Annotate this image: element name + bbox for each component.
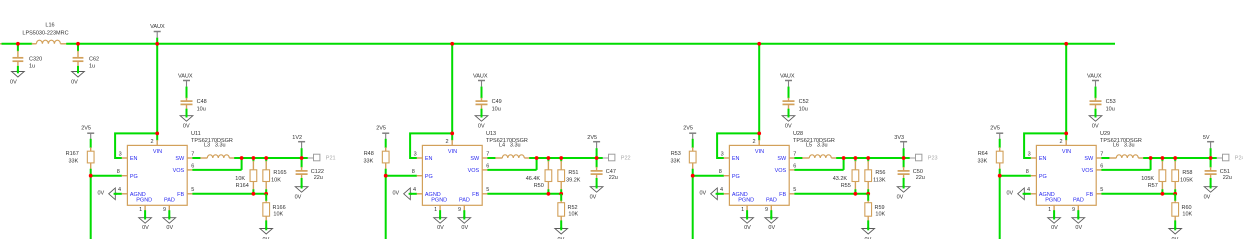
svg-text:VOS: VOS xyxy=(775,168,787,174)
pin names of U13 xyxy=(425,149,480,203)
wire: PG pin 8 of U28 xyxy=(693,175,724,177)
wire: C50 to ground xyxy=(903,178,905,187)
wire: EN pin 3 tie to VIN net (U11) xyxy=(115,133,157,158)
node: junction VOS / output rail xyxy=(535,156,539,160)
wire: FB pin 5 line of U29 xyxy=(1101,193,1175,195)
ground 0V at PGND pin 1 xyxy=(139,216,152,231)
node 2V5: net flag above R53 xyxy=(683,125,696,139)
ground 0V at AGND pin 4 of U28 xyxy=(699,188,718,200)
svg-text:3: 3 xyxy=(721,151,724,157)
pin names of U28 xyxy=(732,149,787,203)
resistor R166 10K xyxy=(263,194,286,229)
svg-text:R166: R166 xyxy=(273,205,286,211)
node: junction R165 top / output rail xyxy=(264,156,268,160)
pin numbers of U11 xyxy=(117,139,195,213)
svg-text:7: 7 xyxy=(1100,151,1103,157)
wire: AGND pin 4 stub of U29 xyxy=(1023,193,1031,195)
svg-text:33K: 33K xyxy=(671,158,681,164)
svg-text:10K: 10K xyxy=(875,211,885,217)
svg-text:5V: 5V xyxy=(1203,135,1210,141)
svg-text:0V: 0V xyxy=(699,191,706,197)
wire: rail down to VIN pin 2 of U28 xyxy=(758,44,760,141)
svg-text:R48: R48 xyxy=(364,151,374,157)
wire: C122 to ground xyxy=(301,178,303,187)
svg-text:C320: C320 xyxy=(29,56,42,62)
wire: FB pin 5 line of U11 xyxy=(192,193,266,195)
svg-text:10u: 10u xyxy=(799,106,808,112)
svg-text:33K: 33K xyxy=(978,158,988,164)
svg-text:0V: 0V xyxy=(590,195,597,201)
ground 0V under C48 xyxy=(180,114,193,129)
ground 0V under C47 xyxy=(590,185,603,200)
svg-text:TPS62170DSGR: TPS62170DSGR xyxy=(191,138,233,144)
wire: PG pin 8 of U29 xyxy=(1000,175,1031,177)
node: junction rail / C320 xyxy=(16,42,20,46)
svg-text:EN: EN xyxy=(1039,156,1047,162)
node: junction PG / pull-up xyxy=(691,174,695,178)
svg-text:6: 6 xyxy=(1100,163,1103,169)
svg-text:R52: R52 xyxy=(568,205,578,211)
svg-text:0V: 0V xyxy=(1172,237,1179,239)
svg-text:FB: FB xyxy=(1086,192,1093,198)
node 2V5: output net flag xyxy=(587,135,600,149)
svg-text:9: 9 xyxy=(458,207,461,213)
svg-text:L5: L5 xyxy=(806,143,812,149)
wire: 2V5 flag to output rail xyxy=(596,148,598,158)
svg-text:8: 8 xyxy=(412,169,415,175)
wire: output rail of U11 xyxy=(234,157,308,159)
ground 0V under C320 xyxy=(10,70,24,85)
svg-text:0V: 0V xyxy=(1006,191,1013,197)
node 3V3: output net flag xyxy=(894,135,907,149)
node VAUX: net flag above C49 xyxy=(473,73,488,87)
svg-text:0V: 0V xyxy=(263,237,270,239)
svg-text:PGND: PGND xyxy=(136,198,152,204)
svg-text:0V: 0V xyxy=(744,225,751,231)
svg-text:10u: 10u xyxy=(197,106,206,112)
svg-text:4: 4 xyxy=(1027,187,1030,193)
resistor R164 10K xyxy=(235,158,256,194)
svg-text:SW: SW xyxy=(175,156,185,162)
svg-text:2V5: 2V5 xyxy=(683,125,693,131)
svg-text:5: 5 xyxy=(191,187,194,193)
ground 0V under R59 xyxy=(862,227,875,240)
svg-text:6: 6 xyxy=(191,163,194,169)
svg-text:TPS62170DSGR: TPS62170DSGR xyxy=(793,138,835,144)
node: junction R57 bottom / FB line xyxy=(1161,192,1165,196)
ground 0V under C52 xyxy=(782,114,795,129)
capacitor C49 10u xyxy=(476,98,502,113)
svg-text:0V: 0V xyxy=(1075,225,1082,231)
svg-text:PGND: PGND xyxy=(1045,198,1061,204)
svg-text:R165: R165 xyxy=(273,170,286,176)
wire: output rail down to C47 xyxy=(596,158,598,167)
ground 0V under C51 xyxy=(1204,185,1217,200)
node 1V2: output net flag xyxy=(292,135,305,149)
svg-text:7: 7 xyxy=(486,151,489,157)
svg-text:5: 5 xyxy=(486,187,489,193)
wire: 3V3 flag to output rail xyxy=(903,148,905,158)
svg-text:FB: FB xyxy=(472,192,479,198)
wire: SW pin 7 stub of U13 xyxy=(487,157,495,159)
capacitor C47 22u xyxy=(591,167,618,181)
wire: C62 to rail xyxy=(77,44,79,51)
wire: VAUX flag to C52 xyxy=(788,87,790,99)
ground 0V under C122 xyxy=(295,185,308,200)
wire: VAUX top rail main segment xyxy=(66,43,1115,45)
wire: VAUX flag stub to rail xyxy=(156,38,158,45)
node 2V5: net flag above R167 xyxy=(81,125,94,139)
svg-text:33K: 33K xyxy=(69,158,79,164)
svg-text:TPS62170DSGR: TPS62170DSGR xyxy=(1100,138,1142,144)
svg-text:C48: C48 xyxy=(197,99,207,105)
ground 0V under R60 xyxy=(1169,227,1182,240)
ground 0V at PGND pin 1 xyxy=(741,216,754,231)
wire: output rail of U28 xyxy=(836,157,910,159)
svg-text:0V: 0V xyxy=(437,225,444,231)
svg-text:8: 8 xyxy=(719,169,722,175)
inductor L3 3.3u xyxy=(200,143,235,158)
svg-text:2: 2 xyxy=(150,139,153,145)
wire: SW pin 7 stub of U29 xyxy=(1101,157,1109,159)
wire: output rail of U13 xyxy=(529,157,603,159)
capacitor C62 1u xyxy=(73,51,99,70)
wire: output rail down to C51 xyxy=(1210,158,1212,167)
svg-text:C47: C47 xyxy=(606,169,616,175)
svg-text:0V: 0V xyxy=(897,195,904,201)
wire: rail down to VIN pin 2 of U11 xyxy=(156,44,158,141)
svg-text:10u: 10u xyxy=(1106,106,1115,112)
wire: VAUX flag to C53 xyxy=(1095,87,1097,99)
svg-text:P21: P21 xyxy=(326,156,336,162)
svg-text:SW: SW xyxy=(1084,156,1094,162)
node: junction PG / pull-up xyxy=(384,174,388,178)
svg-text:1: 1 xyxy=(1048,207,1051,213)
svg-text:3: 3 xyxy=(1028,151,1031,157)
node: junction R55 top / output rail xyxy=(854,156,858,160)
svg-text:C122: C122 xyxy=(311,169,324,175)
svg-text:10K: 10K xyxy=(568,211,578,217)
svg-text:2: 2 xyxy=(1059,139,1062,145)
svg-text:2: 2 xyxy=(445,139,448,145)
inductor L16 LPS5030-223MRC xyxy=(22,23,68,44)
node: junction EN tie / VIN wire xyxy=(757,132,761,136)
resistor R165 10K xyxy=(263,158,287,194)
node: junction rail / C62 xyxy=(76,42,80,46)
svg-text:L4: L4 xyxy=(499,143,505,149)
svg-text:LPS5030-223MRC: LPS5030-223MRC xyxy=(22,31,68,37)
wire: AGND pin 4 stub of U11 xyxy=(114,193,122,195)
svg-text:VIN: VIN xyxy=(448,149,457,155)
resistor R64 33K xyxy=(978,147,1004,169)
wire: C320 to ground xyxy=(17,66,19,72)
node: junction R58 top / output rail xyxy=(1173,156,1177,160)
svg-text:0V: 0V xyxy=(142,225,149,231)
svg-text:1: 1 xyxy=(434,207,437,213)
svg-text:VOS: VOS xyxy=(1082,168,1094,174)
node: junction EN tie / VIN wire xyxy=(1064,132,1068,136)
node: junction PG / pull-up xyxy=(998,174,1002,178)
wire: R167 down past PG junction to sheet edge xyxy=(90,169,92,239)
svg-text:0V: 0V xyxy=(768,225,775,231)
wire: EN pin 3 tie to VIN net (U29) xyxy=(1024,133,1066,158)
wire: C51 to ground xyxy=(1210,178,1212,187)
svg-text:VAUX: VAUX xyxy=(150,24,165,30)
svg-text:2V5: 2V5 xyxy=(587,135,597,141)
node: junction R58 bottom / FB line xyxy=(1173,192,1177,196)
svg-text:22u: 22u xyxy=(916,175,925,181)
svg-text:C50: C50 xyxy=(913,169,923,175)
capacitor C48 10u xyxy=(181,98,207,113)
node: junction output rail / C122 xyxy=(300,156,304,160)
wire: VOS pin 6 of U13 to output xyxy=(487,158,536,170)
node 2V5: net flag above R48 xyxy=(376,125,389,139)
svg-text:VIN: VIN xyxy=(1062,149,1071,155)
node: junction output rail / C51 xyxy=(1209,156,1213,160)
svg-text:0V: 0V xyxy=(1204,195,1211,201)
svg-text:0V: 0V xyxy=(461,225,468,231)
svg-text:1u: 1u xyxy=(89,63,95,69)
svg-text:22u: 22u xyxy=(1223,175,1232,181)
svg-text:C52: C52 xyxy=(799,99,809,105)
node: junction R50 bottom / FB line xyxy=(547,192,551,196)
svg-text:EN: EN xyxy=(732,156,740,162)
ground 0V at AGND pin 4 of U13 xyxy=(392,188,411,200)
svg-text:PG: PG xyxy=(732,174,740,180)
svg-text:R55: R55 xyxy=(841,183,851,189)
wire: AGND pin 4 stub of U13 xyxy=(409,193,417,195)
wire: C53 to ground xyxy=(1095,109,1097,116)
svg-text:U29: U29 xyxy=(1100,131,1110,137)
svg-text:VAUX: VAUX xyxy=(178,73,193,79)
resistor R50 46.4K xyxy=(526,158,552,194)
wire: C52 to ground xyxy=(788,109,790,116)
wire: C320 to rail xyxy=(17,44,19,51)
node: junction R51 top / output rail xyxy=(559,156,563,160)
svg-text:L3: L3 xyxy=(204,143,210,149)
capacitor C53 10u xyxy=(1090,98,1116,113)
svg-text:0V: 0V xyxy=(558,237,565,239)
svg-text:33K: 33K xyxy=(364,158,374,164)
node VAUX: net flag above C52 xyxy=(780,73,795,87)
svg-text:R57: R57 xyxy=(1148,183,1158,189)
inductor L5 3.3u xyxy=(802,143,837,158)
svg-text:2V5: 2V5 xyxy=(81,125,91,131)
svg-text:0V: 0V xyxy=(97,191,104,197)
resistor R58 105K xyxy=(1172,158,1193,194)
pin numbers of U29 xyxy=(1026,139,1104,213)
svg-text:4: 4 xyxy=(118,187,121,193)
svg-text:PG: PG xyxy=(425,174,433,180)
svg-text:3.3u: 3.3u xyxy=(510,143,521,149)
svg-text:L16: L16 xyxy=(45,23,54,29)
svg-text:P22: P22 xyxy=(621,156,631,162)
svg-text:2V5: 2V5 xyxy=(990,125,1000,131)
wire: 5V flag to output rail xyxy=(1210,148,1212,158)
node VAUX: net flag above C48 xyxy=(178,73,193,87)
svg-text:10u: 10u xyxy=(492,106,501,112)
svg-text:C49: C49 xyxy=(492,99,502,105)
ground 0V at PAD pin 9 xyxy=(458,216,471,231)
node: junction R164 bottom / FB line xyxy=(252,192,256,196)
svg-text:10K: 10K xyxy=(271,177,281,183)
ground 0V under C62 xyxy=(71,70,84,85)
svg-text:PAD: PAD xyxy=(1073,198,1084,204)
svg-text:10K: 10K xyxy=(1182,211,1192,217)
svg-text:FB: FB xyxy=(177,192,184,198)
node: junction rail / VIN of U28 xyxy=(757,42,761,46)
wire: 1V2 flag to output rail xyxy=(301,148,303,158)
wire: 2V5 flag to R53 xyxy=(692,139,694,148)
node: junction VOS / output rail xyxy=(240,156,244,160)
svg-text:0V: 0V xyxy=(1051,225,1058,231)
ground 0V at PAD pin 9 xyxy=(163,216,176,231)
svg-text:P24: P24 xyxy=(1235,156,1243,162)
svg-text:R58: R58 xyxy=(1182,170,1192,176)
wire: VAUX flag to C49 xyxy=(481,87,483,99)
wire: PGND pin 1 of U29 to ground xyxy=(1053,205,1055,218)
svg-text:0V: 0V xyxy=(10,80,17,86)
svg-text:1: 1 xyxy=(139,207,142,213)
wire: PGND pin 1 of U13 to ground xyxy=(439,205,441,218)
wire: output rail down to C122 xyxy=(301,158,303,167)
svg-text:VIN: VIN xyxy=(755,149,764,155)
wire: R48 down past PG junction to sheet edge xyxy=(385,169,387,239)
inductor L6 3.3u xyxy=(1109,143,1144,158)
port P23 xyxy=(910,154,938,161)
wire: PG pin 8 of U13 xyxy=(386,175,417,177)
svg-text:PG: PG xyxy=(1039,174,1047,180)
svg-text:U28: U28 xyxy=(793,131,803,137)
node: junction EN tie / VIN wire xyxy=(155,132,159,136)
wire: R64 down past PG junction to sheet edge xyxy=(999,169,1001,239)
svg-text:VAUX: VAUX xyxy=(780,73,795,79)
ground 0V at PGND pin 1 xyxy=(1048,216,1061,231)
svg-text:9: 9 xyxy=(765,207,768,213)
node VAUX: net flag above C53 xyxy=(1087,73,1102,87)
ground 0V at PGND pin 1 xyxy=(434,216,447,231)
svg-text:1u: 1u xyxy=(29,63,35,69)
op-amp/IC U28 TPS62170DSGR body xyxy=(724,131,835,205)
op-amp/IC U11 TPS62170DSGR body xyxy=(122,131,233,205)
wire: C49 to ground xyxy=(481,109,483,116)
svg-text:C51: C51 xyxy=(1220,169,1230,175)
wire: 2V5 flag to R64 xyxy=(999,139,1001,148)
resistor R167 33K xyxy=(66,147,94,169)
resistor R59 10K xyxy=(865,194,886,229)
svg-text:VOS: VOS xyxy=(173,168,185,174)
svg-text:9: 9 xyxy=(163,207,166,213)
svg-text:105K: 105K xyxy=(1141,176,1154,182)
svg-text:R51: R51 xyxy=(568,170,578,176)
svg-text:PGND: PGND xyxy=(431,198,447,204)
svg-text:C53: C53 xyxy=(1106,99,1116,105)
wire: PGND pin 1 of U28 to ground xyxy=(746,205,748,218)
port P24 xyxy=(1217,154,1243,161)
svg-text:2V5: 2V5 xyxy=(376,125,386,131)
svg-text:0V: 0V xyxy=(785,123,792,129)
op-amp/IC U13 TPS62170DSGR body xyxy=(417,131,528,205)
node: junction VOS / output rail xyxy=(1149,156,1153,160)
svg-text:VAUX: VAUX xyxy=(473,73,488,79)
svg-text:3.3u: 3.3u xyxy=(215,143,226,149)
svg-text:PAD: PAD xyxy=(766,198,777,204)
svg-text:PG: PG xyxy=(130,174,138,180)
svg-text:7: 7 xyxy=(191,151,194,157)
svg-text:43.2K: 43.2K xyxy=(833,176,848,182)
svg-text:39.2K: 39.2K xyxy=(566,177,581,183)
ground 0V at AGND pin 4 of U29 xyxy=(1006,188,1025,200)
svg-text:R60: R60 xyxy=(1182,205,1192,211)
svg-text:4: 4 xyxy=(720,187,723,193)
svg-text:R64: R64 xyxy=(978,151,988,157)
resistor R56 113K xyxy=(865,158,886,194)
capacitor C122 22u xyxy=(296,167,324,181)
wire: PAD pin 9 of U28 to ground xyxy=(770,205,772,218)
svg-text:U11: U11 xyxy=(191,131,201,137)
svg-text:3.3u: 3.3u xyxy=(1124,143,1135,149)
wire: rail down to VIN pin 2 of U29 xyxy=(1065,44,1067,141)
svg-text:7: 7 xyxy=(793,151,796,157)
resistor R53 33K xyxy=(671,147,697,169)
svg-text:EN: EN xyxy=(425,156,433,162)
capacitor C320 1u xyxy=(13,51,43,70)
svg-text:0V: 0V xyxy=(183,123,190,129)
node 5V: output net flag xyxy=(1203,135,1214,149)
svg-text:PAD: PAD xyxy=(164,198,175,204)
op-amp/IC U29 TPS62170DSGR body xyxy=(1031,131,1142,205)
resistor R55 43.2K xyxy=(833,158,859,194)
resistor R52 10K xyxy=(558,194,579,229)
svg-text:0V: 0V xyxy=(392,191,399,197)
svg-text:C62: C62 xyxy=(89,56,99,62)
svg-text:0V: 0V xyxy=(865,237,872,239)
svg-text:R50: R50 xyxy=(534,183,544,189)
port P22 xyxy=(603,154,631,161)
wire: EN pin 3 tie to VIN net (U13) xyxy=(410,133,452,158)
svg-text:P23: P23 xyxy=(928,156,938,162)
node: junction R55 bottom / FB line xyxy=(854,192,858,196)
svg-text:VAUX: VAUX xyxy=(1087,73,1102,79)
svg-text:0V: 0V xyxy=(71,80,78,86)
svg-text:6: 6 xyxy=(486,163,489,169)
wire: FB pin 5 line of U28 xyxy=(794,193,868,195)
wire: EN pin 3 tie to VIN net (U28) xyxy=(717,133,759,158)
svg-text:10K: 10K xyxy=(235,176,245,182)
wire: C48 to ground xyxy=(186,109,188,116)
svg-text:TPS62170DSGR: TPS62170DSGR xyxy=(486,138,528,144)
capacitor C52 10u xyxy=(783,98,809,113)
wire: output rail down to C50 xyxy=(903,158,905,167)
wire: R53 down past PG junction to sheet edge xyxy=(692,169,694,239)
svg-text:105K: 105K xyxy=(1180,177,1193,183)
svg-text:R53: R53 xyxy=(671,151,681,157)
svg-text:4: 4 xyxy=(413,187,416,193)
wire: clipped input stub at left edge xyxy=(0,43,3,45)
pin numbers of U28 xyxy=(719,139,797,213)
svg-text:9: 9 xyxy=(1072,207,1075,213)
node: junction PG / pull-up xyxy=(89,174,93,178)
node: junction rail / VIN of U11 xyxy=(155,42,159,46)
wire: FB pin 5 line of U13 xyxy=(487,193,561,195)
ground 0V at AGND pin 4 of U11 xyxy=(97,188,116,200)
resistor R51 39.2K xyxy=(558,158,581,194)
wire: 2V5 flag to R167 xyxy=(90,139,92,148)
resistor R48 33K xyxy=(364,147,390,169)
wire: rail down to VIN pin 2 of U13 xyxy=(451,44,453,141)
svg-text:SW: SW xyxy=(777,156,787,162)
svg-text:L6: L6 xyxy=(1113,143,1119,149)
